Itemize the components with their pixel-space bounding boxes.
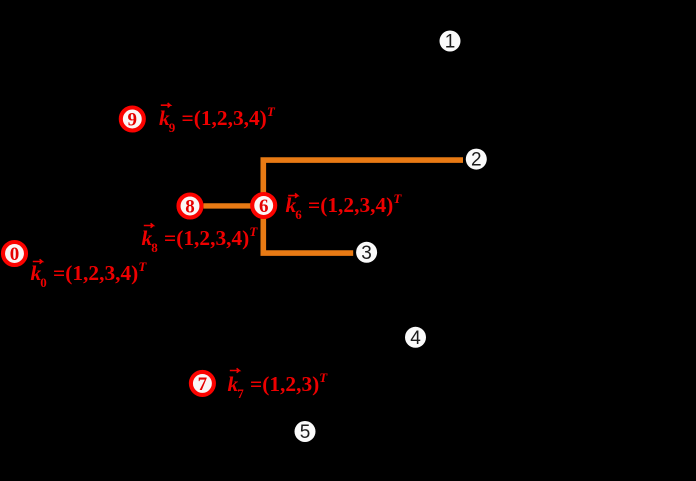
label k7 = (1,2,3)^T [228, 374, 328, 395]
vector arrow over k8 [144, 223, 153, 227]
svg-text:3: 3 [361, 243, 372, 264]
svg-text:9: 9 [128, 109, 138, 130]
vector arrow over k9 [161, 103, 170, 107]
svg-text:7: 7 [198, 374, 208, 395]
svg-text:4: 4 [410, 328, 421, 349]
vector arrow over k7 [230, 368, 239, 372]
label k0 = (1,2,3,4)^T [31, 263, 147, 284]
vector arrow over k0 [33, 259, 42, 263]
node 5 [295, 421, 316, 443]
node 7 (red, on path) [191, 372, 214, 395]
wire: highlighted path edge 8-6 [204, 203, 263, 208]
node 3 [356, 242, 377, 264]
node 6 (red, on path) [252, 194, 275, 217]
node 9 (red, on path) [121, 108, 144, 131]
node 8 (red, on path) [179, 195, 202, 218]
node 0 (red, on path) [3, 242, 26, 265]
svg-text:8: 8 [185, 196, 195, 217]
svg-text:6: 6 [259, 196, 269, 217]
node 4 [405, 327, 426, 349]
svg-text:1: 1 [445, 32, 456, 53]
node 1 [440, 31, 461, 53]
svg-text:2: 2 [471, 150, 482, 171]
svg-text:5: 5 [300, 422, 311, 443]
label k9 = (1,2,3,4)^T [159, 108, 275, 129]
wire: highlighted path edge 6-2 and 6-3 (vertical trunk with two horizontal runs) [263, 160, 463, 253]
label k8 = (1,2,3,4)^T [142, 228, 258, 249]
label k6 = (1,2,3,4)^T [286, 195, 402, 216]
svg-text:0: 0 [10, 244, 20, 265]
vector arrow over k6 [288, 193, 297, 197]
node 2 [466, 149, 487, 171]
